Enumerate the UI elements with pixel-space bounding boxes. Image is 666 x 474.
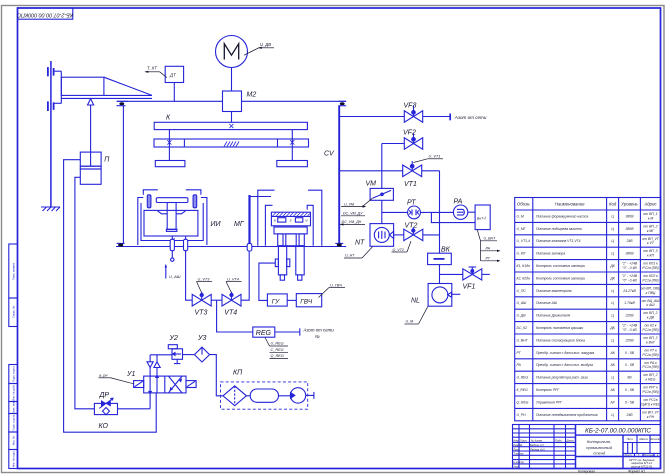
svg-text:Инв. № подл.: Инв. № подл. [12, 450, 16, 467]
svg-text:U_VT1,4: U_VT1,4 [517, 239, 530, 243]
svg-text:DC_VM_ДУ: DC_VM_ДУ [343, 212, 363, 216]
svg-text:№: № [315, 334, 320, 339]
svg-text:Питание клапанов VT1,VT4: Питание клапанов VT1,VT4 [536, 239, 581, 243]
svg-text:к ВнТ: к ВнТ [646, 340, 656, 344]
svg-text:МГ: МГ [234, 221, 245, 228]
svg-text:от КП1 к: от КП1 к [643, 262, 658, 266]
svg-text:U_МГ: U_МГ [517, 227, 527, 231]
svg-text:Азот от сети: Азот от сети [454, 115, 487, 120]
svg-text:Разраб.: Разраб. [513, 443, 523, 447]
svg-text:КБ-2-07.00.00.000КПС: КБ-2-07.00.00.000КПС [585, 428, 651, 435]
svg-text:S: S [289, 218, 291, 222]
svg-text:Подп. и дата: Подп. и дата [12, 414, 16, 430]
svg-text:РА: РА [517, 363, 522, 367]
svg-text:Н.контр.: Н.контр. [513, 460, 525, 464]
svg-text:U_VT1: U_VT1 [429, 154, 441, 158]
svg-text:VT1: VT1 [404, 181, 417, 188]
svg-text:Питание АШ: Питание АШ [536, 301, 558, 305]
svg-text:U_VM: U_VM [344, 202, 354, 206]
svg-text:Изм.: Изм. [513, 439, 519, 443]
svg-text:к ДВ: к ДВ [647, 316, 655, 320]
svg-text:Пров.: Пров. [513, 447, 520, 451]
svg-text:от ВП_3: от ВП_3 [643, 249, 657, 253]
svg-text:REG: REG [256, 330, 272, 337]
svg-text:220В: 220В [625, 338, 635, 342]
svg-text:0 - 5В: 0 - 5В [625, 351, 635, 355]
svg-text:Листов: Листов [642, 453, 654, 457]
svg-text:U_НТ: U_НТ [345, 254, 355, 258]
svg-text:к АШ: к АШ [647, 303, 656, 307]
svg-text:24-27кВ: 24-27кВ [622, 289, 636, 293]
svg-text:Наименование: Наименование [555, 202, 585, 207]
svg-text:U_ГВЧ: U_ГВЧ [330, 283, 342, 287]
svg-text:Подп.: Подп. [555, 439, 562, 443]
svg-text:NL: NL [411, 298, 420, 305]
svg-text:С_REG: С_REG [271, 348, 284, 352]
svg-text:"1" - +24В: "1" - +24В [622, 274, 638, 278]
svg-text:к КП: к КП [647, 254, 655, 258]
svg-text:Взам. инв.: Взам. инв. [12, 401, 16, 414]
svg-text:U_АШ: U_АШ [517, 301, 528, 305]
svg-text:U_ДВ: U_ДВ [517, 314, 527, 318]
svg-text:к VT: к VT [647, 241, 655, 245]
svg-text:24В: 24В [625, 239, 633, 243]
svg-text:КП: КП [233, 370, 243, 377]
svg-text:Q_REG: Q_REG [517, 400, 529, 404]
svg-text:Питание пневдвигателя приблоче: Питание пневдвигателя приблочения [536, 413, 598, 417]
svg-text:Питание Движителя: Питание Движителя [536, 314, 570, 318]
svg-text:Обозн.: Обозн. [517, 202, 531, 207]
svg-text:Формат А1: Формат А1 [628, 470, 645, 474]
svg-text:от ВП_2: от ВП_2 [643, 224, 657, 228]
svg-text:VM: VM [366, 181, 377, 188]
svg-text:от РС1в: от РС1в [643, 398, 657, 402]
svg-text:Уровень: Уровень [621, 202, 638, 207]
svg-text:КБ-2-07.00.00.000КПС: КБ-2-07.00.00.000КПС [17, 12, 73, 18]
svg-text:U_REG: U_REG [271, 342, 284, 346]
svg-text:от ВП_2: от ВП_2 [643, 336, 657, 340]
svg-text:от ВП_2: от ВП_2 [643, 373, 657, 377]
svg-text:К1, К1дн: К1, К1дн [517, 264, 531, 268]
svg-text:U_М: U_М [517, 214, 524, 218]
svg-text:Леонов А.Н.: Леонов А.Н. [529, 447, 545, 451]
svg-text:U_АШ: U_АШ [169, 274, 181, 279]
svg-text:U_М: U_М [406, 320, 414, 324]
svg-text:РТ: РТ [407, 199, 416, 206]
svg-text:Преобр. сигнал с датч.выс. вак: Преобр. сигнал с датч.выс. вакуума [536, 351, 594, 355]
svg-text:U_ВНТ: U_ВНТ [517, 338, 529, 342]
svg-text:Лит.: Лит. [626, 437, 634, 441]
svg-text:Справ. №: Справ. № [12, 306, 16, 318]
svg-text:"0" - 0.4В: "0" - 0.4В [622, 328, 637, 332]
svg-text:к РН: к РН [647, 415, 655, 419]
svg-text:а_рн: а_рн [99, 374, 108, 378]
svg-text:от ВП_VT: от ВП_VT [642, 410, 660, 414]
svg-text:0 - 5В: 0 - 5В [625, 388, 635, 392]
svg-text:Масса: Масса [639, 437, 648, 441]
svg-text:ДР: ДР [99, 392, 110, 399]
svg-text:Подп. и дата: Подп. и дата [12, 366, 16, 382]
svg-text:VF3: VF3 [404, 103, 417, 110]
svg-text:Питание подогрева мишени: Питание подогрева мишени [536, 227, 582, 231]
svg-text:DC_К2: DC_К2 [517, 326, 528, 330]
svg-text:ВнТ-2: ВнТ-2 [477, 216, 487, 221]
svg-text:КО: КО [99, 423, 109, 430]
svg-text:от ВП_1: от ВП_1 [643, 212, 657, 216]
svg-text:Лист: Лист [519, 439, 528, 443]
svg-text:РС1в (ПВ): РС1в (ПВ) [642, 328, 658, 332]
svg-text:ВК: ВК [441, 247, 451, 254]
svg-text:NT: NT [355, 240, 365, 247]
svg-text:от ВП_2: от ВП_2 [643, 311, 657, 315]
svg-text:U_РН: U_РН [517, 413, 527, 417]
svg-text:Перв. примен.: Перв. примен. [12, 262, 16, 280]
svg-text:от ВП_VT: от ВП_VT [642, 237, 660, 241]
svg-text:U_ДВ: U_ДВ [260, 42, 271, 47]
svg-text:У1: У1 [126, 371, 135, 378]
svg-text:К2, К2дн: К2, К2дн [517, 276, 531, 280]
svg-text:CV: CV [324, 151, 335, 158]
svg-text:Питание согласующего блока: Питание согласующего блока [536, 338, 585, 342]
svg-text:DC_VM_ДН: DC_VM_ДН [342, 220, 362, 224]
svg-text:РС1в (ПВ): РС1в (ПВ) [642, 390, 658, 394]
svg-text:VF2: VF2 [403, 130, 416, 137]
svg-text:Контроль состояния затвора: Контроль состояния затвора [536, 276, 585, 280]
svg-text:U_VT3: U_VT3 [198, 277, 211, 281]
svg-text:РС1в (ПВ): РС1в (ПВ) [642, 278, 658, 282]
svg-text:от КП2 к: от КП2 к [643, 274, 658, 278]
svg-text:к ПВЦ: к ПВЦ [646, 291, 656, 295]
svg-text:от ВП_ПВЦ: от ВП_ПВЦ [641, 286, 661, 290]
svg-text:ИИ: ИИ [211, 221, 222, 228]
svg-text:Q_REG: Q_REG [271, 354, 284, 358]
svg-text:к М: к М [648, 216, 654, 220]
svg-text:ГУ: ГУ [272, 298, 280, 305]
svg-text:Инв. №: Инв. № [12, 436, 16, 445]
svg-text:U_ПС: U_ПС [517, 289, 527, 293]
svg-text:Т_КТ: Т_КТ [147, 66, 157, 71]
svg-text:U_КП: U_КП [517, 252, 526, 256]
svg-text:стенд: стенд [593, 451, 606, 456]
svg-text:№ докум.: № докум. [531, 439, 543, 443]
svg-text:Преобр. сигнал с датч.низ. воз: Преобр. сигнал с датч.низ. воздуха [536, 363, 593, 367]
svg-text:U_ВНТ: U_ВНТ [484, 237, 497, 241]
svg-text:"0" - 0.4В: "0" - 0.4В [622, 278, 637, 282]
svg-text:VT2: VT2 [405, 223, 418, 230]
svg-text:М2: М2 [247, 92, 257, 99]
svg-text:Т.контр.: Т.контр. [513, 452, 524, 456]
svg-text:Управления РРГ: Управления РРГ [536, 400, 563, 404]
svg-text:U_VT4: U_VT4 [227, 277, 239, 281]
svg-text:24В: 24В [625, 413, 633, 417]
svg-text:0 - 5В: 0 - 5В [625, 363, 635, 367]
svg-text:от РРГ к: от РРГ к [643, 386, 658, 390]
svg-text:группа МТ11-81: группа МТ11-81 [631, 465, 653, 469]
svg-text:Питание затвора: Питание затвора [536, 252, 565, 256]
svg-text:Код: Код [609, 202, 617, 207]
svg-text:(ЦАП) к REG: (ЦАП) к REG [640, 402, 661, 406]
svg-text:АУ: АУ [610, 400, 616, 404]
svg-text:К_REG: К_REG [517, 388, 529, 392]
svg-text:РА: РА [486, 246, 491, 250]
svg-text:Контрольно-: Контрольно- [587, 439, 612, 444]
svg-text:к REG: к REG [646, 378, 656, 382]
svg-text:Контроль состояния затвора: Контроль состояния затвора [536, 264, 585, 268]
svg-text:РА: РА [454, 199, 463, 206]
svg-text:Бабкин А.С.: Бабкин А.С. [530, 443, 545, 447]
svg-text:Q_VT2: Q_VT2 [393, 248, 404, 252]
svg-text:VT3: VT3 [195, 310, 208, 317]
svg-text:Питание форвакуумного насоса: Питание форвакуумного насоса [536, 214, 588, 218]
svg-text:Лист: Лист [623, 453, 632, 457]
svg-text:ДТ: ДТ [169, 73, 176, 78]
svg-text:РС1в (ПВ): РС1в (ПВ) [642, 266, 658, 270]
svg-text:РС1в (ПВ): РС1в (ПВ) [642, 353, 658, 357]
svg-text:Питание магнетрона: Питание магнетрона [536, 289, 572, 293]
svg-text:Контроль РРГ: Контроль РРГ [536, 388, 560, 392]
svg-text:У3: У3 [197, 335, 206, 342]
svg-text:Контроль положения крышки: Контроль положения крышки [536, 326, 583, 330]
svg-text:ГВЧ: ГВЧ [300, 299, 313, 306]
svg-text:Адрес: Адрес [643, 202, 657, 207]
svg-text:1.76кВ: 1.76кВ [624, 301, 635, 305]
svg-text:Азот от сети: Азот от сети [303, 327, 335, 332]
svg-text:6В: 6В [627, 376, 632, 380]
svg-text:U_REG: U_REG [517, 376, 529, 380]
svg-text:к МГ: к МГ [647, 229, 655, 233]
svg-text:220В: 220В [625, 314, 635, 318]
svg-text:Питание регулятора расх. газа: Питание регулятора расх. газа [536, 376, 588, 380]
svg-text:от РТ к: от РТ к [644, 348, 657, 352]
svg-text:VF1: VF1 [463, 284, 476, 291]
svg-text:У2: У2 [169, 335, 178, 342]
svg-text:"1" - +24В: "1" - +24В [622, 324, 638, 328]
svg-text:380В: 380В [626, 252, 635, 256]
svg-text:Масштаб: Масштаб [649, 438, 661, 441]
svg-text:Копировал: Копировал [578, 470, 595, 474]
svg-text:0 - 5В: 0 - 5В [625, 400, 635, 404]
svg-text:промывочный: промывочный [586, 445, 613, 450]
svg-text:"1" - +24В: "1" - +24В [622, 262, 638, 266]
svg-text:Утв.: Утв. [513, 465, 519, 469]
svg-text:"0" - 0.4В: "0" - 0.4В [622, 266, 637, 270]
svg-text:Инв. № дубл.: Инв. № дубл. [12, 384, 16, 401]
svg-text:от РА к: от РА к [644, 361, 657, 365]
svg-text:VT4: VT4 [224, 310, 237, 317]
svg-text:от ВЦ_АШ: от ВЦ_АШ [642, 299, 661, 303]
svg-text:Дата: Дата [566, 439, 575, 443]
svg-text:380В: 380В [626, 227, 635, 231]
svg-text:РС1в (ПВ): РС1в (ПВ) [642, 365, 658, 369]
svg-text:от К2 к: от К2 к [644, 324, 656, 328]
svg-text:380В: 380В [626, 214, 635, 218]
